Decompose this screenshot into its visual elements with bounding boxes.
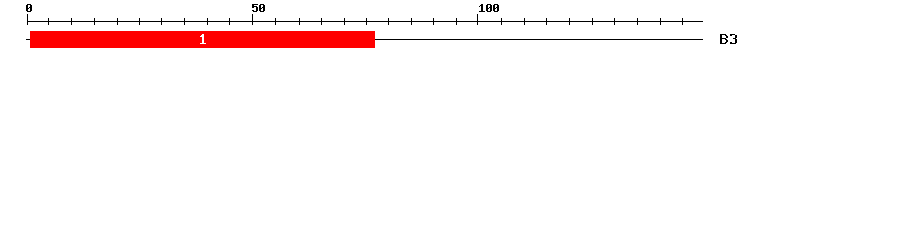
minor tick x=660 xyxy=(660,18,661,25)
ruler label 50 xyxy=(252,4,265,12)
minor tick x=411 xyxy=(411,18,412,25)
major tick at unit 50 xyxy=(252,14,253,25)
minor tick x=321 xyxy=(321,18,322,25)
ruler axis line xyxy=(27,21,703,22)
minor tick x=229 xyxy=(229,18,230,25)
minor tick x=48 xyxy=(48,18,49,25)
minor tick x=546 xyxy=(546,18,547,25)
minor tick x=299 xyxy=(299,18,300,25)
minor tick x=366 xyxy=(366,18,367,25)
minor tick x=71 xyxy=(71,18,72,25)
minor tick x=184 xyxy=(184,18,185,25)
minor tick x=207 xyxy=(207,18,208,25)
minor tick x=344 xyxy=(344,18,345,25)
bar label 1 (white) xyxy=(200,34,206,44)
minor tick x=94 xyxy=(94,18,95,25)
feature baseline left stub xyxy=(26,39,30,40)
minor tick x=569 xyxy=(569,18,570,25)
ruler label 100 xyxy=(479,4,499,12)
minor tick x=388 xyxy=(388,18,389,25)
minor tick x=637 xyxy=(637,18,638,25)
minor tick x=275 xyxy=(275,18,276,25)
minor tick x=456 xyxy=(456,18,457,25)
minor tick x=161 xyxy=(161,18,162,25)
feature name label B3 xyxy=(720,34,737,44)
minor tick x=139 xyxy=(139,18,140,25)
minor tick x=614 xyxy=(614,18,615,25)
minor tick x=117 xyxy=(117,18,118,25)
major tick at unit 100 xyxy=(477,14,478,25)
minor tick x=592 xyxy=(592,18,593,25)
major tick at unit 0 xyxy=(27,14,28,25)
feature bar (red) xyxy=(30,31,375,48)
minor tick x=433 xyxy=(433,18,434,25)
minor tick x=524 xyxy=(524,18,525,25)
minor tick x=501 xyxy=(501,18,502,25)
ruler label 0 xyxy=(26,4,32,12)
minor tick x=682 xyxy=(682,18,683,25)
feature baseline right segment xyxy=(375,39,703,40)
